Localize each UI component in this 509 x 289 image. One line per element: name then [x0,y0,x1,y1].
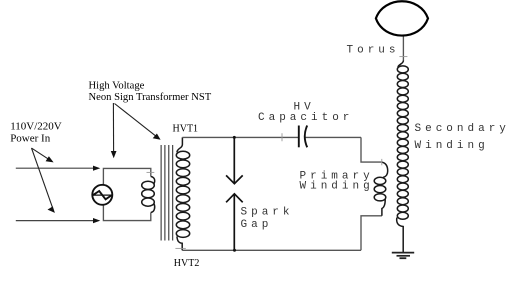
svg-text:Winding: Winding [300,180,374,192]
svg-text:HVT1: HVT1 [173,123,199,134]
svg-text:Spark: Spark [241,207,294,219]
svg-text:HVT2: HVT2 [174,258,200,269]
svg-text:Secondary: Secondary [415,123,509,135]
svg-text:Torus: Torus [347,45,400,57]
svg-text:High Voltage: High Voltage [89,81,145,92]
svg-text:Gap: Gap [241,219,273,231]
svg-text:110V/220V: 110V/220V [10,121,62,133]
svg-text:Winding: Winding [415,140,489,152]
svg-text:Power In: Power In [10,133,51,145]
svg-text:Neon Sign Transformer NST: Neon Sign Transformer NST [89,92,212,103]
svg-text:Capacitor: Capacitor [258,112,353,124]
